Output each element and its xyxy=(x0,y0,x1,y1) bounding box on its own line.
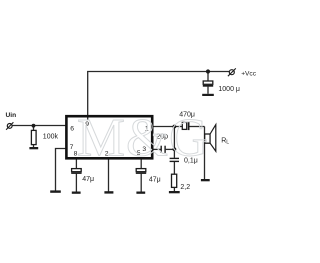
svg-text:47μ: 47μ xyxy=(149,176,161,183)
svg-text:100k: 100k xyxy=(43,133,59,140)
svg-text:1000 μ: 1000 μ xyxy=(218,86,240,93)
svg-text:M&G: M&G xyxy=(77,108,209,168)
svg-text:2,2: 2,2 xyxy=(180,184,190,191)
svg-text:L: L xyxy=(226,140,229,146)
svg-text:6: 6 xyxy=(70,126,74,133)
svg-text:47μ: 47μ xyxy=(82,176,94,183)
svg-text:Uin: Uin xyxy=(6,112,17,119)
svg-text:+Vcc: +Vcc xyxy=(241,70,257,77)
